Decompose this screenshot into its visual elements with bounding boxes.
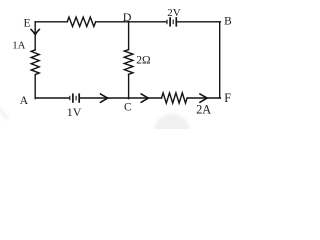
svg-text:2Ω: 2Ω	[136, 55, 150, 67]
svg-text:1V: 1V	[67, 105, 82, 119]
svg-text:C: C	[124, 101, 132, 113]
wire D down to middle resistor	[128, 22, 130, 50]
battery 1V plate tall	[78, 93, 80, 102]
watermark streak	[0, 108, 8, 119]
resistor C–F (bottom)	[162, 93, 188, 103]
battery 2V plate short	[166, 20, 168, 25]
wire B to F (right side)	[219, 22, 221, 98]
battery 1V plate short	[75, 96, 77, 101]
svg-text:E: E	[24, 17, 31, 30]
wire C to bottom resistor	[129, 97, 162, 99]
battery 2V plate tall	[169, 17, 171, 26]
battery 1V plate tall	[72, 93, 74, 102]
wire 1V battery to C	[81, 97, 129, 99]
arrow 2A direction before F (right)	[200, 94, 207, 102]
resistor E–D (top)	[67, 17, 95, 26]
arrow on wire after 1V battery (right)	[100, 94, 107, 102]
wire bottom resistor to F	[188, 97, 221, 99]
svg-text:A: A	[20, 93, 29, 107]
arrow 1A current (down, below E)	[31, 29, 40, 34]
wire A to 1V battery	[35, 97, 69, 99]
svg-text:2V: 2V	[167, 7, 181, 19]
svg-text:1A: 1A	[12, 40, 25, 52]
wire left side E to resistor	[34, 22, 36, 50]
resistor E–A (left side)	[31, 50, 39, 75]
wire 2V battery to B	[178, 21, 221, 23]
svg-text:D: D	[123, 10, 132, 24]
svg-text:2A: 2A	[196, 103, 211, 117]
resistor 2ohm (middle)	[124, 50, 133, 75]
wire resistor to 2V battery	[96, 21, 166, 23]
svg-text:B: B	[224, 15, 232, 27]
wire middle resistor to C	[128, 74, 130, 98]
wire left resistor to A	[34, 75, 36, 99]
svg-text:F: F	[224, 91, 231, 105]
watermark smudge	[155, 114, 190, 148]
battery 2V plate tall	[175, 17, 177, 26]
battery 1V plate short	[69, 96, 71, 101]
wire E to resistor (top left)	[35, 21, 67, 23]
battery 2V plate short	[172, 20, 174, 25]
arrow on wire C to resistor (right)	[141, 94, 148, 102]
